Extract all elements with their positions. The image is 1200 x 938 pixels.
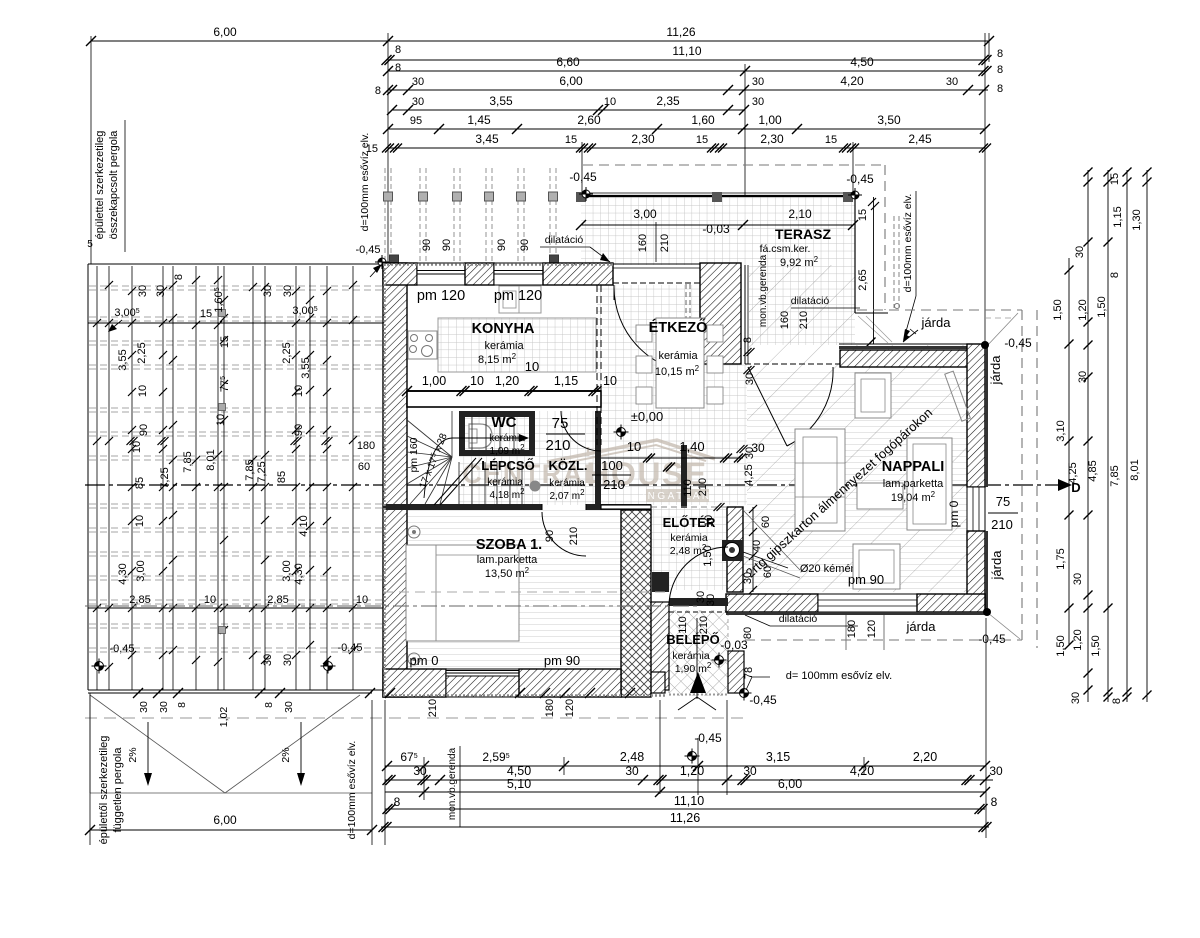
- svg-text:független pergola: független pergola: [112, 747, 124, 833]
- svg-text:dilatáció: dilatáció: [779, 613, 818, 625]
- svg-text:összekapcsolt pergola: összekapcsolt pergola: [108, 130, 120, 240]
- svg-text:1,50: 1,50: [1055, 635, 1067, 656]
- svg-text:90: 90: [441, 239, 453, 251]
- svg-text:3,00: 3,00: [135, 560, 147, 581]
- svg-text:11,10: 11,10: [672, 44, 701, 58]
- konyha south partition: [407, 391, 601, 407]
- svg-text:-0,45: -0,45: [978, 632, 1006, 646]
- etkezo table: [656, 318, 704, 408]
- nappali south wall east part: [917, 594, 985, 612]
- svg-text:100: 100: [601, 458, 623, 473]
- szoba floor parquet: [407, 510, 621, 669]
- right dim ticks: [1065, 266, 1074, 275]
- svg-text:1,60: 1,60: [691, 113, 715, 127]
- svg-text:160: 160: [779, 311, 791, 329]
- svg-text:2,10: 2,10: [788, 207, 812, 221]
- belepo arrow: [690, 672, 706, 693]
- svg-text:90: 90: [138, 424, 150, 436]
- pergola dim ticks: [93, 319, 101, 327]
- svg-text:2,48: 2,48: [620, 750, 644, 764]
- svg-text:180: 180: [357, 440, 375, 452]
- svg-text:90: 90: [519, 239, 531, 251]
- svg-text:8: 8: [395, 44, 401, 56]
- svg-text:épülettel szerkezetileg: épülettel szerkezetileg: [94, 131, 106, 240]
- etkezo corner wall block: [700, 263, 741, 364]
- nappali door threshold: [745, 363, 840, 365]
- svg-text:10: 10: [131, 441, 143, 453]
- svg-text:30: 30: [138, 701, 150, 713]
- szoba divider wall: [383, 504, 542, 510]
- window konyha 2: [494, 263, 543, 285]
- svg-text:30: 30: [282, 285, 294, 297]
- svg-text:pm 120: pm 120: [494, 288, 542, 304]
- svg-text:KÖZL.: KÖZL.: [549, 458, 588, 473]
- svg-text:8: 8: [395, 62, 401, 74]
- svg-text:85: 85: [134, 477, 146, 489]
- svg-text:4,20: 4,20: [840, 74, 864, 88]
- svg-text:2,60: 2,60: [577, 113, 601, 127]
- svg-text:60: 60: [358, 461, 370, 473]
- svg-text:6,00: 6,00: [213, 25, 237, 39]
- belepo west wall: [647, 602, 669, 690]
- watermark central house: [462, 440, 715, 502]
- kitchen dim chain: [407, 390, 601, 392]
- terasz door threshold: [613, 263, 700, 265]
- svg-text:KONYHA: KONYHA: [472, 321, 535, 337]
- window konyha 1: [417, 263, 465, 285]
- svg-text:6,00: 6,00: [559, 74, 583, 88]
- svg-text:ELŐTÉR: ELŐTÉR: [663, 515, 716, 530]
- svg-text:lam.parketta: lam.parketta: [883, 478, 944, 490]
- bottom main dim chains: [385, 765, 985, 767]
- svg-text:120: 120: [866, 620, 878, 638]
- svg-text:8: 8: [997, 48, 1003, 60]
- svg-text:1,45: 1,45: [467, 113, 491, 127]
- svg-text:járda: járda: [906, 619, 937, 634]
- svg-text:1,50: 1,50: [1052, 299, 1064, 320]
- svg-text:75: 75: [552, 415, 569, 432]
- svg-text:pm 120: pm 120: [417, 288, 465, 304]
- svg-text:10,15 m2: 10,15 m2: [655, 364, 700, 379]
- svg-text:30: 30: [705, 594, 717, 606]
- svg-text:1,15: 1,15: [554, 374, 578, 388]
- svg-text:15: 15: [696, 134, 708, 146]
- door arc belepo-eloter: [669, 547, 728, 606]
- terasz slab top edge: [581, 195, 855, 197]
- svg-text:210: 210: [697, 478, 709, 496]
- tv: [945, 371, 971, 421]
- eloter west black pier: [652, 572, 669, 592]
- svg-text:3,15: 3,15: [766, 750, 790, 764]
- svg-text:járda: járda: [988, 355, 1003, 386]
- svg-text:pm 0: pm 0: [947, 500, 961, 527]
- svg-text:30: 30: [744, 447, 756, 459]
- svg-text:2,35: 2,35: [656, 94, 680, 108]
- nappali armchair: [855, 373, 891, 418]
- pergola bottom slab: [88, 692, 372, 694]
- svg-text:d=100mm esővíz elv.: d=100mm esővíz elv.: [902, 194, 914, 293]
- svg-text:járda: járda: [921, 315, 952, 330]
- svg-text:2,48 m2: 2,48 m2: [670, 543, 707, 558]
- svg-text:2,25: 2,25: [281, 342, 293, 363]
- svg-text:3,55: 3,55: [117, 349, 129, 370]
- svg-text:210: 210: [698, 616, 710, 634]
- nappali sofa left: [795, 429, 845, 531]
- pergola solid dim rows: [88, 322, 383, 324]
- beam marks on wall: [390, 255, 399, 264]
- svg-text:-0,45: -0,45: [846, 172, 874, 186]
- svg-text:30: 30: [1077, 371, 1089, 383]
- svg-text:2%: 2%: [127, 747, 139, 762]
- nappali table: [857, 483, 903, 509]
- svg-text:1,50: 1,50: [1096, 296, 1108, 317]
- svg-text:dilatáció: dilatáció: [545, 234, 584, 246]
- svg-text:ÉTKEZŐ: ÉTKEZŐ: [649, 318, 708, 336]
- svg-text:7,85: 7,85: [1109, 465, 1121, 486]
- svg-text:8: 8: [1111, 698, 1123, 704]
- svg-text:8: 8: [997, 64, 1003, 76]
- terasz dashed boundary top: [583, 164, 885, 166]
- svg-text:10: 10: [134, 515, 146, 527]
- svg-text:1,20: 1,20: [1077, 299, 1089, 320]
- svg-text:11,26: 11,26: [666, 25, 695, 39]
- svg-text:10: 10: [215, 414, 227, 426]
- svg-text:120: 120: [564, 699, 576, 717]
- svg-text:-0,45: -0,45: [337, 642, 362, 654]
- svg-text:3,55: 3,55: [300, 357, 312, 378]
- stairs upper run treads over wc: [471, 417, 473, 450]
- pergola slab outline left: [88, 263, 383, 265]
- svg-text:30: 30: [413, 764, 427, 778]
- stairs winder fan: [407, 420, 452, 457]
- svg-text:3,00: 3,00: [633, 207, 657, 221]
- nappali east wall upper: [967, 344, 985, 487]
- svg-text:dilatáció: dilatáció: [791, 295, 830, 307]
- wc toilet: [469, 424, 492, 448]
- svg-text:-0,03: -0,03: [702, 222, 730, 236]
- svg-text:D: D: [1071, 480, 1080, 495]
- svg-text:5,10: 5,10: [507, 777, 531, 791]
- svg-text:2,85: 2,85: [129, 594, 150, 606]
- door arc kozl-etkezo: [561, 411, 601, 451]
- svg-text:-0,45: -0,45: [569, 170, 597, 184]
- svg-text:10: 10: [356, 594, 368, 606]
- svg-text:10: 10: [604, 96, 616, 108]
- svg-text:8: 8: [991, 795, 998, 809]
- pergola mid column squares: [219, 310, 226, 317]
- svg-text:30: 30: [262, 654, 274, 666]
- konyha stove: [408, 331, 437, 359]
- svg-text:SZOBA 1.: SZOBA 1.: [476, 537, 542, 553]
- terasz right edge: [854, 196, 856, 313]
- svg-text:110: 110: [677, 616, 689, 634]
- svg-text:15: 15: [200, 308, 212, 320]
- svg-text:1,20: 1,20: [680, 764, 704, 778]
- svg-text:210: 210: [545, 437, 570, 454]
- svg-text:210: 210: [991, 517, 1013, 532]
- svg-text:210: 210: [603, 477, 625, 492]
- svg-text:15: 15: [366, 143, 378, 155]
- svg-text:160: 160: [637, 234, 649, 252]
- door arc terasz-nappali: [787, 367, 833, 446]
- svg-text:30: 30: [1070, 692, 1082, 704]
- svg-text:210: 210: [427, 699, 439, 717]
- svg-text:-0,45: -0,45: [355, 244, 380, 256]
- svg-text:6,60: 6,60: [556, 55, 580, 69]
- svg-text:4,10: 4,10: [298, 515, 310, 536]
- pergola vertical dim lines: [96, 266, 98, 690]
- nappali chair right: [907, 438, 952, 530]
- svg-text:1,50: 1,50: [1090, 635, 1102, 656]
- door arc kozl-szoba: [542, 512, 586, 556]
- jarda dashed right: [857, 309, 1022, 311]
- svg-text:4,20: 4,20: [850, 764, 874, 778]
- svg-text:30: 30: [752, 96, 764, 108]
- svg-text:4,50: 4,50: [507, 764, 531, 778]
- corner diagonal jarda: [969, 313, 1018, 365]
- etkezo floor tiles: [597, 285, 747, 505]
- bottom extension verticals: [384, 700, 386, 845]
- svg-text:30: 30: [412, 96, 424, 108]
- svg-text:1,00: 1,00: [758, 113, 782, 127]
- svg-text:1,02: 1,02: [218, 707, 230, 728]
- svg-text:30: 30: [625, 764, 639, 778]
- svg-text:4,25: 4,25: [743, 464, 755, 485]
- eloter north dashed open boundary: [651, 506, 727, 508]
- svg-text:10: 10: [603, 374, 617, 388]
- etkezo inner dim chain: [601, 457, 743, 459]
- bottom dashed ground lines: [85, 717, 745, 719]
- svg-text:30: 30: [282, 654, 294, 666]
- svg-text:1,30: 1,30: [1131, 209, 1143, 230]
- konyha counter band tiles: [438, 318, 596, 372]
- svg-text:kerámia: kerámia: [672, 650, 710, 662]
- svg-text:járda: járda: [989, 550, 1004, 581]
- svg-text:1,15: 1,15: [1112, 206, 1124, 227]
- svg-text:mon.vb.gerenda: mon.vb.gerenda: [758, 254, 769, 327]
- svg-text:7,85: 7,85: [182, 451, 194, 472]
- svg-text:15: 15: [825, 134, 837, 146]
- svg-text:13,50 m2: 13,50 m2: [485, 566, 530, 581]
- north wall pier 3: [543, 263, 613, 285]
- svg-text:-0,45: -0,45: [109, 643, 134, 655]
- svg-text:19,04 m2: 19,04 m2: [891, 490, 936, 505]
- centerline axis: [85, 484, 1070, 486]
- svg-text:30: 30: [743, 764, 757, 778]
- svg-text:110: 110: [682, 479, 694, 497]
- svg-text:30: 30: [744, 373, 756, 385]
- top dim chains: [91, 40, 989, 42]
- belepo east rim: [728, 651, 744, 693]
- svg-text:210: 210: [568, 527, 580, 545]
- svg-text:15: 15: [1109, 173, 1121, 185]
- corner node nw: [375, 255, 389, 269]
- svg-text:75: 75: [996, 494, 1010, 509]
- etkezo-eloter wall stub: [681, 445, 687, 508]
- szoba bed: [406, 545, 519, 641]
- svg-text:6,00: 6,00: [213, 813, 237, 827]
- svg-text:8: 8: [173, 274, 185, 280]
- svg-text:40: 40: [751, 540, 763, 552]
- eloter south wall: [669, 598, 728, 606]
- szoba south corner ext: [621, 672, 665, 693]
- szoba nightstands: [408, 526, 420, 538]
- svg-text:-0,45: -0,45: [694, 731, 722, 745]
- svg-text:2,30: 2,30: [631, 132, 655, 146]
- svg-text:7,85: 7,85: [244, 459, 256, 480]
- konyha window niche: [499, 286, 541, 313]
- svg-text:30: 30: [752, 76, 764, 88]
- szoba south wall: [383, 669, 446, 697]
- svg-text:2%: 2%: [280, 747, 292, 762]
- svg-text:kerámia: kerámia: [484, 340, 524, 352]
- ceiling hatch over nappali: [743, 265, 967, 592]
- svg-text:180: 180: [544, 699, 556, 717]
- svg-text:kerámia: kerámia: [487, 477, 523, 488]
- svg-text:2,30: 2,30: [760, 132, 784, 146]
- svg-text:2,595: 2,595: [482, 750, 509, 764]
- svg-text:10: 10: [137, 385, 149, 397]
- svg-text:d=100mm esővíz elv.: d=100mm esővíz elv.: [346, 741, 358, 840]
- nappali north wall: [840, 350, 985, 367]
- svg-text:4,50: 4,50: [850, 55, 874, 69]
- svg-text:90: 90: [421, 239, 433, 251]
- svg-text:90: 90: [293, 424, 305, 436]
- node markers pergola: [92, 659, 107, 674]
- svg-text:kerámia: kerámia: [658, 350, 698, 362]
- svg-text:30: 30: [1072, 573, 1084, 585]
- svg-text:BELÉPŐ: BELÉPŐ: [666, 632, 719, 647]
- north wall pier 2: [465, 263, 494, 285]
- svg-text:1,00: 1,00: [422, 374, 446, 388]
- nappali south wall west part: [726, 594, 818, 612]
- bottom left ticks row: [133, 688, 143, 698]
- svg-text:10: 10: [525, 359, 539, 374]
- szoba east wall xhatch: [621, 510, 651, 697]
- svg-text:30: 30: [155, 285, 167, 297]
- svg-text:4,85: 4,85: [1087, 460, 1099, 481]
- terasz dim 3,00 2,10: [581, 224, 853, 226]
- svg-text:10: 10: [627, 439, 641, 454]
- svg-text:pm 90: pm 90: [544, 653, 580, 668]
- gray node kozl: [530, 481, 541, 492]
- svg-text:8: 8: [997, 83, 1003, 95]
- svg-text:8,01: 8,01: [205, 449, 217, 470]
- svg-text:8: 8: [263, 702, 275, 708]
- svg-text:lam.parketta: lam.parketta: [477, 554, 538, 566]
- szoba south wall e: [519, 669, 621, 697]
- svg-text:2,45: 2,45: [908, 132, 932, 146]
- svg-text:11,10: 11,10: [674, 794, 704, 808]
- svg-text:WC: WC: [492, 414, 517, 431]
- svg-text:1,90 m2: 1,90 m2: [675, 661, 712, 676]
- svg-text:8: 8: [176, 702, 188, 708]
- svg-text:±0,00: ±0,00: [631, 409, 663, 424]
- belepo floor diamond tiles: [669, 610, 728, 696]
- top dim extension verticals: [387, 33, 389, 264]
- stairs bottom run treads: [458, 462, 460, 504]
- svg-text:80: 80: [742, 627, 754, 639]
- svg-text:LÉPCSŐ: LÉPCSŐ: [481, 458, 534, 473]
- west outer wall: [383, 263, 407, 697]
- svg-text:210: 210: [659, 234, 671, 252]
- pergola columns dashed verticals: [384, 168, 386, 263]
- svg-text:3,00: 3,00: [281, 560, 293, 581]
- north wall pier 1: [383, 263, 417, 285]
- svg-text:30: 30: [1074, 246, 1086, 258]
- svg-text:30: 30: [946, 76, 958, 88]
- svg-text:2,85: 2,85: [267, 594, 288, 606]
- svg-text:3,10: 3,10: [1055, 420, 1067, 441]
- svg-text:6,00: 6,00: [778, 777, 802, 791]
- konyha etkezo dashed divider: [596, 285, 598, 445]
- svg-text:85: 85: [276, 471, 288, 483]
- terasz columns: [576, 192, 586, 202]
- svg-text:8: 8: [1109, 272, 1121, 278]
- svg-text:pm 90: pm 90: [848, 572, 884, 587]
- svg-text:8: 8: [742, 337, 754, 343]
- svg-text:9,92 m2: 9,92 m2: [780, 255, 819, 270]
- right dim verticals: [1068, 258, 1070, 645]
- svg-text:3,45: 3,45: [475, 132, 499, 146]
- svg-text:210: 210: [798, 311, 810, 329]
- svg-text:1,75: 1,75: [1055, 548, 1067, 569]
- svg-text:2,65: 2,65: [857, 269, 869, 290]
- szoba door opening: [541, 504, 543, 510]
- svg-text:8,15 m2: 8,15 m2: [478, 352, 517, 367]
- svg-text:10: 10: [293, 385, 305, 397]
- szoba south window: [446, 669, 519, 697]
- svg-text:10: 10: [204, 594, 216, 606]
- svg-text:4,30: 4,30: [293, 563, 305, 584]
- svg-text:1,20: 1,20: [495, 374, 519, 388]
- svg-text:95: 95: [410, 115, 422, 127]
- pergola bottom zigzag: [90, 695, 225, 793]
- svg-text:-0,45: -0,45: [749, 693, 777, 707]
- svg-text:180: 180: [846, 620, 858, 638]
- pergola rafters dashed: [89, 285, 383, 287]
- svg-text:pm 0: pm 0: [410, 653, 439, 668]
- svg-text:30: 30: [137, 285, 149, 297]
- eloter floor tiles: [651, 508, 741, 590]
- terasz vertical dim 2,65: [873, 197, 875, 344]
- eloter north wall: [601, 505, 651, 509]
- 2 percent arrows: [147, 722, 149, 783]
- svg-text:1,40: 1,40: [679, 439, 704, 454]
- nappali table2: [853, 544, 900, 589]
- door projection dashes: [685, 284, 687, 332]
- svg-text:30: 30: [283, 701, 295, 713]
- svg-text:2,20: 2,20: [913, 750, 937, 764]
- terasz floor tiles: [581, 196, 855, 345]
- svg-text:fá.csm.ker.: fá.csm.ker.: [760, 243, 811, 255]
- svg-text:15: 15: [565, 134, 577, 146]
- wc kozl floor tiles: [459, 411, 595, 505]
- svg-text:8: 8: [375, 85, 381, 97]
- svg-text:30: 30: [412, 76, 424, 88]
- svg-text:3,55: 3,55: [489, 94, 513, 108]
- stairs cut line: [434, 458, 476, 505]
- svg-text:5: 5: [87, 239, 93, 250]
- svg-text:3,50: 3,50: [877, 113, 901, 127]
- svg-text:60: 60: [760, 516, 772, 528]
- chimney: [722, 540, 743, 561]
- svg-text:épülettől szerkezetileg: épülettől szerkezetileg: [98, 736, 110, 845]
- insulation dotted bands: [383, 263, 613, 266]
- nappali floor parquet: [743, 367, 967, 592]
- kozl east wall: [595, 411, 601, 505]
- svg-text:30: 30: [989, 764, 1003, 778]
